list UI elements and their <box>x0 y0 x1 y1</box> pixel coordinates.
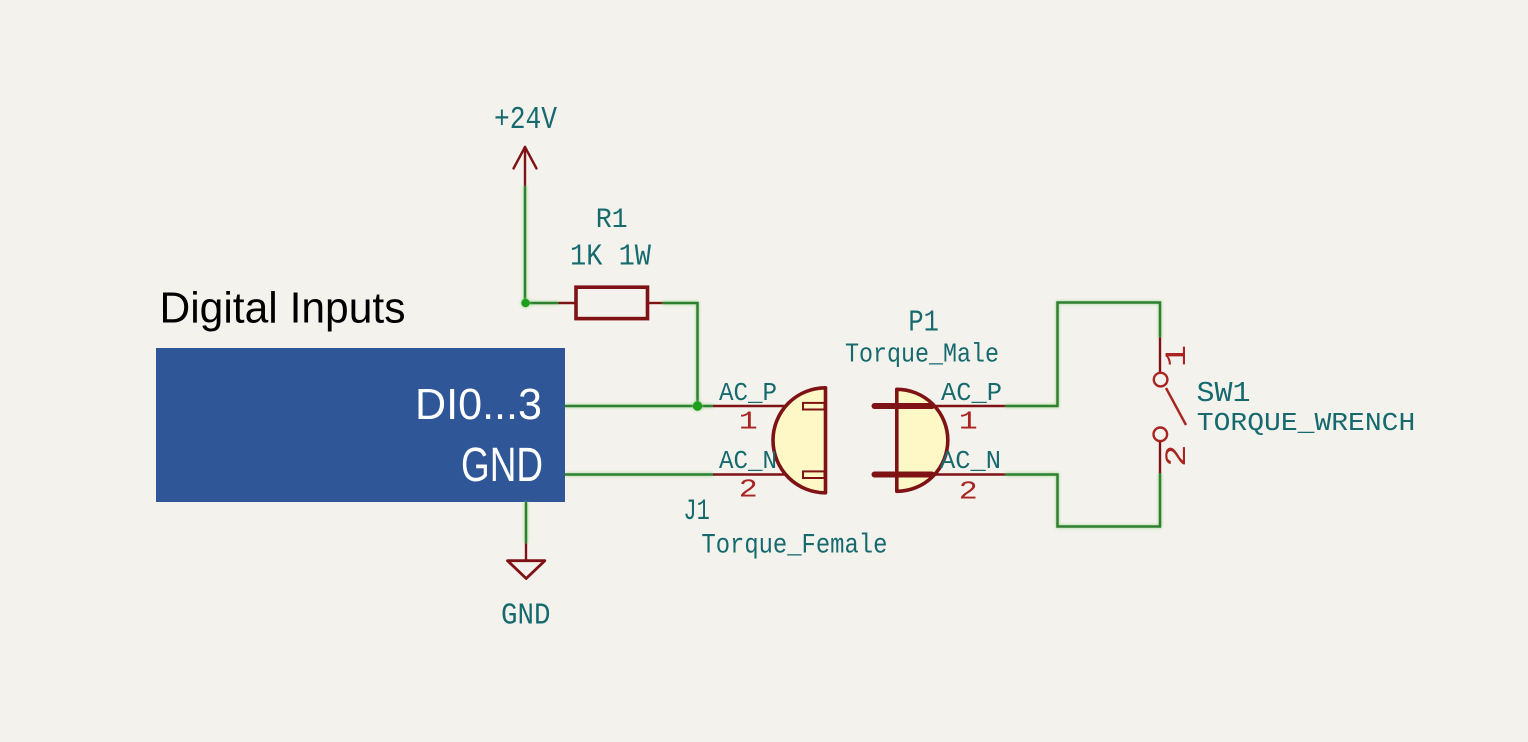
wire box bottom to ground <box>525 502 528 543</box>
junction node DI <box>693 401 702 410</box>
svg-text:+24V: +24V <box>494 103 557 138</box>
switch SW1 arm (open) <box>1166 388 1186 425</box>
svg-text:1: 1 <box>1161 345 1195 368</box>
connector J1 socket 2 <box>803 471 825 478</box>
svg-text:2: 2 <box>1161 444 1195 467</box>
svg-text:AC_N: AC_N <box>719 446 777 476</box>
ground triangle symbol <box>508 561 545 579</box>
connector J1 body (female half-circle) <box>773 388 825 493</box>
wire GND row <box>565 473 713 476</box>
svg-text:1: 1 <box>959 407 978 437</box>
svg-text:AC_P: AC_P <box>719 378 777 408</box>
blue Digital Inputs box <box>156 348 565 502</box>
svg-text:AC_N: AC_N <box>940 446 1001 476</box>
resistor R1 pin 2 lead <box>648 302 663 304</box>
svg-text:GND: GND <box>461 439 543 492</box>
wire R1 right down to DI node <box>663 303 698 406</box>
wire DI0...3 row <box>565 405 713 408</box>
svg-text:GND: GND <box>501 598 551 633</box>
switch SW1 contact 1 <box>1154 373 1168 387</box>
svg-text:Torque_Male: Torque_Male <box>845 341 999 371</box>
svg-text:Digital Inputs: Digital Inputs <box>160 285 406 333</box>
connector P1 blade 1 <box>875 403 933 409</box>
switch SW1 pin 1 lead <box>1159 337 1161 372</box>
wire P1 pin2 to SW1 <box>1006 473 1161 526</box>
wire P1 pin1 to SW1 <box>1006 303 1161 407</box>
connector P1 body (male half-circle) <box>897 389 948 491</box>
power flag +24V <box>514 147 537 186</box>
ground pin stub <box>525 543 527 560</box>
svg-text:SW1: SW1 <box>1197 377 1251 410</box>
resistor R1 pin 1 lead <box>559 302 577 304</box>
junction at +24V/R1 corner <box>521 299 529 307</box>
svg-text:Torque_Female: Torque_Female <box>701 531 887 562</box>
connector J1 socket 1 <box>803 403 825 410</box>
wire +24V vertical <box>524 186 527 303</box>
svg-text:1: 1 <box>739 407 758 437</box>
svg-text:DI0...3: DI0...3 <box>415 380 542 429</box>
svg-text:2: 2 <box>739 475 758 505</box>
connector P1 blade 2 <box>875 472 933 478</box>
connector P1 pin 2 lead <box>932 473 1006 475</box>
connector J1 pin 2 lead <box>713 473 802 475</box>
svg-text:1K 1W: 1K 1W <box>570 240 651 275</box>
svg-text:P1: P1 <box>908 305 939 340</box>
svg-text:TORQUE_WRENCH: TORQUE_WRENCH <box>1197 409 1416 438</box>
wire to R1 left <box>525 302 559 305</box>
switch SW1 pin 2 lead <box>1159 442 1161 474</box>
svg-text:AC_P: AC_P <box>941 378 1002 408</box>
svg-text:R1: R1 <box>596 205 628 236</box>
svg-text:2: 2 <box>959 477 978 507</box>
svg-text:J1: J1 <box>683 494 710 528</box>
connector J1 pin 1 lead <box>713 405 802 407</box>
switch SW1 contact 2 <box>1154 428 1168 442</box>
resistor R1 body <box>576 287 648 318</box>
connector P1 pin 1 lead <box>932 405 1006 407</box>
